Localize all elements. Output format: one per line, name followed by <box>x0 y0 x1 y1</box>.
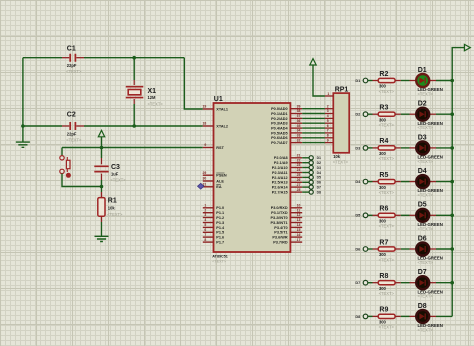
svg-text:30: 30 <box>203 177 207 181</box>
svg-text:16: 16 <box>297 233 301 237</box>
pin P2.7/A15 (28) <box>272 188 302 195</box>
svg-text:<TEXT>: <TEXT> <box>418 226 434 231</box>
wire R9 to LED <box>401 315 410 317</box>
EA pin marker <box>198 183 205 189</box>
svg-text:<TEXT>: <TEXT> <box>418 327 434 332</box>
svg-text:P2.1/A9: P2.1/A9 <box>274 161 288 165</box>
svg-text:R3: R3 <box>379 105 388 112</box>
pin P0.3/AD3 (36) <box>271 119 302 126</box>
svg-text:R6: R6 <box>379 206 388 213</box>
svg-text:D5: D5 <box>355 213 361 218</box>
LED D1 LED-GREEN <box>410 67 443 97</box>
wire P0.6 to RP1 pin 8 <box>302 134 333 138</box>
svg-text:P3.4/T0: P3.4/T0 <box>274 226 287 230</box>
node crystal bottom junction <box>132 124 136 128</box>
ground (left) <box>16 142 30 147</box>
pin XTAL2 (18) <box>203 122 229 129</box>
LED D6 LED-GREEN <box>410 235 443 265</box>
LED D3 LED-GREEN <box>410 134 443 164</box>
node terminal D3 (P2.2) <box>302 165 321 169</box>
svg-text:<TEXT>: <TEXT> <box>379 224 395 229</box>
wire C3 bottom <box>101 180 103 187</box>
svg-text:10: 10 <box>297 204 301 208</box>
svg-text:P1.1: P1.1 <box>216 211 224 215</box>
svg-text:17: 17 <box>297 238 301 242</box>
svg-text:28: 28 <box>297 188 301 192</box>
pin P3.6/WR (16) <box>272 233 302 240</box>
svg-text:<TEXT>: <TEXT> <box>333 160 349 165</box>
svg-text:P3.0/RXD: P3.0/RXD <box>271 206 288 210</box>
wire crystal branch vertical <box>133 58 135 80</box>
node terminal D4 (P2.3) <box>302 170 321 174</box>
svg-text:27: 27 <box>297 183 301 187</box>
resistor pack RP1 <box>333 86 349 164</box>
resistor R2 <box>373 71 401 94</box>
pin P2.1/A9 (22) <box>274 158 302 165</box>
svg-text:P0.5/AD5: P0.5/AD5 <box>271 131 287 135</box>
svg-text:32: 32 <box>297 138 301 142</box>
wire R4 to LED <box>401 147 410 149</box>
wire C1 net top horizontal <box>23 57 62 59</box>
svg-text:<TEXT>: <TEXT> <box>66 137 82 142</box>
power terminal VCC (RP1) <box>310 59 325 96</box>
svg-text:2: 2 <box>204 208 206 212</box>
wire LED D8 to rail <box>436 315 452 317</box>
pin RST (9) <box>203 143 225 150</box>
resistor R6 <box>373 206 401 229</box>
svg-text:<TEXT>: <TEXT> <box>379 89 395 94</box>
svg-text:39: 39 <box>297 104 301 108</box>
svg-text:<TEXT>: <TEXT> <box>418 125 434 130</box>
svg-text:15: 15 <box>297 228 301 232</box>
wire LED D4 to rail <box>436 181 452 183</box>
svg-text:<TEXT>: <TEXT> <box>418 193 434 198</box>
svg-text:D5: D5 <box>418 202 427 209</box>
wire P0.2 to RP1 pin 4 <box>302 114 333 118</box>
wire terminal to R9 <box>368 315 373 317</box>
node rail junction row 1 <box>450 79 454 83</box>
svg-text:D1: D1 <box>355 78 361 83</box>
pin P0.6/AD6 (33) <box>271 134 302 141</box>
svg-text:EA: EA <box>216 185 222 189</box>
svg-text:9: 9 <box>327 138 329 142</box>
svg-text:<TEXT>: <TEXT> <box>379 291 395 296</box>
pin P2.2/A10 (23) <box>272 163 302 170</box>
wire LED D5 to rail <box>436 214 452 216</box>
LED D7 LED-GREEN <box>410 269 443 299</box>
svg-text:29: 29 <box>203 171 207 175</box>
LED D4 LED-GREEN <box>410 168 443 198</box>
svg-text:P1.4: P1.4 <box>216 226 225 230</box>
wire LED D1 to rail <box>436 80 452 82</box>
svg-text:P1.2: P1.2 <box>216 216 224 220</box>
svg-text:C2: C2 <box>67 111 76 118</box>
node terminal D8 (led row) <box>355 314 367 319</box>
pin P1.3 (4) <box>203 218 224 225</box>
pin P0.7/AD7 (32) <box>271 138 302 145</box>
pin P0.1/AD1 (38) <box>271 109 302 116</box>
pin P3.4/T0 (14) <box>274 223 302 230</box>
power terminal (top right) <box>464 44 470 50</box>
svg-text:P0.3/AD3: P0.3/AD3 <box>271 122 287 126</box>
svg-text:D8: D8 <box>317 190 321 194</box>
svg-text:<TEXT>: <TEXT> <box>379 325 395 330</box>
svg-text:D8: D8 <box>418 303 427 310</box>
svg-text:9: 9 <box>204 143 206 147</box>
wire terminal to R3 <box>368 113 373 115</box>
svg-text:P3.1/TXD: P3.1/TXD <box>271 211 288 215</box>
wire LED D7 to rail <box>436 282 452 284</box>
pin P3.2/INT0 (12) <box>271 213 303 220</box>
svg-text:D7: D7 <box>418 269 427 276</box>
svg-text:D7: D7 <box>317 185 321 189</box>
svg-text:22pF: 22pF <box>67 63 77 68</box>
svg-text:<TEXT>: <TEXT> <box>379 257 395 262</box>
svg-text:10k: 10k <box>108 205 116 210</box>
LED D2 LED-GREEN <box>410 101 443 131</box>
wire button top <box>61 148 63 156</box>
resistor R4 <box>373 138 401 161</box>
svg-text:P0.1/AD1: P0.1/AD1 <box>271 112 287 116</box>
wire right power rail <box>452 48 464 317</box>
wire terminal to R7 <box>368 248 373 250</box>
wire RST net horizontal <box>62 147 203 149</box>
svg-text:R8: R8 <box>379 273 388 280</box>
svg-text:C1: C1 <box>67 45 76 52</box>
svg-text:3: 3 <box>327 109 329 113</box>
svg-text:AT89C51: AT89C51 <box>212 255 228 259</box>
svg-text:37: 37 <box>297 114 301 118</box>
svg-text:P1.7: P1.7 <box>216 241 224 245</box>
pin P2.3/A11 (24) <box>272 168 302 175</box>
node rail junction row 2 <box>450 112 454 116</box>
svg-text:R2: R2 <box>379 71 388 78</box>
svg-text:2: 2 <box>327 104 329 108</box>
svg-text:D6: D6 <box>355 246 361 251</box>
svg-text:D4: D4 <box>418 168 427 175</box>
node terminal D5 (P2.4) <box>302 175 321 179</box>
wire RST node down to C3 <box>101 148 103 159</box>
svg-text:P3.5/T1: P3.5/T1 <box>274 231 287 235</box>
pin P2.6/A14 (27) <box>272 183 302 190</box>
svg-text:P2.0/A8: P2.0/A8 <box>274 156 288 160</box>
svg-text:P0.0/AD0: P0.0/AD0 <box>271 107 287 111</box>
svg-text:XTAL1: XTAL1 <box>216 107 228 111</box>
pin XTAL1 (19) <box>203 105 229 112</box>
node terminal D2 (led row) <box>355 112 367 117</box>
resistor R5 <box>373 172 401 195</box>
wire P0.0 to RP1 pin 2 <box>302 104 333 108</box>
pin P0.0/AD0 (39) <box>271 104 302 111</box>
svg-text:22: 22 <box>297 158 301 162</box>
capacitor C3 <box>94 158 126 182</box>
pin P2.0/A8 (21) <box>274 154 302 161</box>
svg-text:P3.3/INT1: P3.3/INT1 <box>271 221 288 225</box>
svg-text:22pF: 22pF <box>67 131 77 136</box>
svg-text:<TEXT>: <TEXT> <box>212 259 226 263</box>
svg-text:26: 26 <box>297 178 301 182</box>
svg-text:21: 21 <box>297 154 301 158</box>
resistor R9 <box>373 307 401 330</box>
svg-text:P1.0: P1.0 <box>216 206 224 210</box>
svg-text:P1.5: P1.5 <box>216 231 224 235</box>
pin P0.2/AD2 (37) <box>271 114 302 121</box>
svg-text:25: 25 <box>297 173 301 177</box>
svg-text:4: 4 <box>327 114 329 118</box>
svg-text:P0.6/AD6: P0.6/AD6 <box>271 136 287 140</box>
node C2-net left junction <box>21 124 25 128</box>
svg-text:8: 8 <box>204 238 206 242</box>
svg-text:<TEXT>: <TEXT> <box>379 156 395 161</box>
wire R5 to LED <box>401 181 410 183</box>
svg-text:12M: 12M <box>148 95 157 100</box>
LED D5 LED-GREEN <box>410 202 443 232</box>
resistor R1 <box>98 187 123 237</box>
svg-text:1: 1 <box>327 92 329 96</box>
svg-text:P2.2/A10: P2.2/A10 <box>272 166 288 170</box>
svg-text:13: 13 <box>297 218 301 222</box>
svg-text:<TEXT>: <TEXT> <box>107 212 123 217</box>
svg-text:34: 34 <box>297 129 301 133</box>
svg-text:PSEN: PSEN <box>216 174 227 178</box>
svg-text:<TEXT>: <TEXT> <box>379 190 395 195</box>
node terminal D7 (led row) <box>355 280 367 285</box>
svg-text:35: 35 <box>297 124 301 128</box>
pin P2.5/A13 (26) <box>272 178 302 185</box>
pin P1.6 (7) <box>203 233 224 240</box>
wire P0.7 to RP1 pin 9 <box>302 138 333 142</box>
svg-text:P3.7/RD: P3.7/RD <box>273 241 288 245</box>
pin P1.4 (5) <box>203 223 225 230</box>
node rail junction row 7 <box>450 281 454 285</box>
wire terminal to R4 <box>368 147 373 149</box>
svg-text:R7: R7 <box>379 239 388 246</box>
svg-text:D4: D4 <box>317 171 321 175</box>
node terminal D1 (led row) <box>355 78 367 83</box>
pin EA (31) <box>203 183 222 190</box>
svg-text:6: 6 <box>327 124 329 128</box>
svg-text:23: 23 <box>297 163 301 167</box>
node rail junction row 4 <box>450 180 454 184</box>
svg-text:D2: D2 <box>355 112 361 117</box>
pin P1.7 (8) <box>203 238 224 245</box>
svg-text:18: 18 <box>203 122 207 126</box>
LED D8 LED-GREEN <box>410 303 443 333</box>
push button <box>60 156 71 178</box>
node terminal D6 (P2.5) <box>302 180 321 184</box>
pin ALE (30) <box>203 177 225 184</box>
svg-text:P2.3/A11: P2.3/A11 <box>272 171 288 175</box>
node rail junction row 3 <box>450 146 454 150</box>
wire LED D3 to rail <box>436 147 452 149</box>
svg-text:D7: D7 <box>355 280 360 285</box>
svg-text:6: 6 <box>204 228 206 232</box>
svg-text:38: 38 <box>297 109 301 113</box>
crystal X1 <box>126 80 164 107</box>
svg-text:12: 12 <box>297 213 301 217</box>
svg-text:U1: U1 <box>214 96 223 103</box>
svg-text:D2: D2 <box>317 161 321 165</box>
svg-text:D4: D4 <box>355 179 361 184</box>
node rail junction row 5 <box>450 214 454 218</box>
svg-text:R1: R1 <box>108 198 117 205</box>
wire LED D2 to rail <box>436 113 452 115</box>
svg-text:36: 36 <box>297 119 301 123</box>
pin P3.5/T1 (15) <box>274 228 302 235</box>
node RST/VCC junction <box>100 146 104 150</box>
svg-text:1: 1 <box>204 204 206 208</box>
pin P3.7/RD (17) <box>273 238 302 245</box>
wire button bottom to C3 node <box>62 174 102 187</box>
wire left vertical to ground <box>22 58 24 142</box>
svg-text:D3: D3 <box>355 145 361 150</box>
wire P0.3 to RP1 pin 5 <box>302 119 333 123</box>
svg-text:<TEXT>: <TEXT> <box>418 260 434 265</box>
svg-text:D1: D1 <box>317 156 321 160</box>
resistor R8 <box>373 273 401 296</box>
svg-text:14: 14 <box>297 223 301 227</box>
wire terminal to R5 <box>368 181 373 183</box>
power terminal VCC (reset) <box>98 130 104 147</box>
wire C2 net horizontal <box>23 125 62 127</box>
pin P3.0/RXD (10) <box>271 204 302 211</box>
node rail junction row 6 <box>450 247 454 251</box>
wire P0.1 to RP1 pin 3 <box>302 109 333 113</box>
pin PSEN (29) <box>203 171 227 178</box>
svg-text:<TEXT>: <TEXT> <box>418 92 434 97</box>
resistor R7 <box>373 239 401 262</box>
svg-text:P1.3: P1.3 <box>216 221 224 225</box>
node terminal D5 (led row) <box>355 213 367 218</box>
svg-text:3: 3 <box>204 213 206 217</box>
wire R3 to LED <box>401 113 410 115</box>
svg-text:<TEXT>: <TEXT> <box>418 159 434 164</box>
svg-text:P3.6/WR: P3.6/WR <box>272 236 287 240</box>
pin P0.5/AD5 (34) <box>271 129 302 136</box>
pin P1.1 (2) <box>203 208 224 215</box>
pin P1.0 (1) <box>203 204 224 211</box>
svg-text:19: 19 <box>203 105 207 109</box>
svg-text:<TEXT>: <TEXT> <box>379 123 395 128</box>
node terminal D3 (led row) <box>355 145 367 150</box>
pin P0.4/AD4 (35) <box>271 124 302 131</box>
wire R8 to LED <box>401 282 410 284</box>
wire terminal to R2 <box>368 80 373 82</box>
svg-text:5: 5 <box>204 223 206 227</box>
resistor R3 <box>373 105 401 128</box>
svg-text:P1.6: P1.6 <box>216 236 224 240</box>
svg-text:<TEXT>: <TEXT> <box>148 102 164 107</box>
svg-text:C3: C3 <box>111 164 120 171</box>
op-amp U1 AT89C51 microcontroller body <box>212 96 290 263</box>
wire terminal to R8 <box>368 282 373 284</box>
capacitor C1 <box>62 45 84 74</box>
svg-text:D1: D1 <box>418 67 427 74</box>
svg-text:XTAL2: XTAL2 <box>216 124 228 128</box>
svg-text:D3: D3 <box>317 166 321 170</box>
node crystal top junction <box>132 56 136 60</box>
svg-text:<TEXT>: <TEXT> <box>66 69 82 74</box>
svg-text:<TEXT>: <TEXT> <box>418 294 434 299</box>
svg-text:D5: D5 <box>317 176 321 180</box>
svg-text:8: 8 <box>327 134 329 138</box>
wire R7 to LED <box>401 248 410 250</box>
svg-text:P3.2/INT0: P3.2/INT0 <box>271 216 288 220</box>
svg-text:D6: D6 <box>418 235 427 242</box>
pin P3.1/TXD (11) <box>271 208 302 215</box>
wire R2 to LED <box>401 80 410 82</box>
svg-text:P2.6/A14: P2.6/A14 <box>272 186 289 190</box>
node terminal D8 (P2.7) <box>302 190 321 194</box>
svg-text:<TEXT>: <TEXT> <box>110 177 126 182</box>
node terminal D2 (P2.1) <box>302 161 321 165</box>
pin P1.5 (6) <box>203 228 224 235</box>
svg-text:11: 11 <box>297 208 301 212</box>
svg-text:5: 5 <box>327 119 329 123</box>
wire LED D6 to rail <box>436 248 452 250</box>
svg-text:R4: R4 <box>379 138 388 145</box>
svg-text:ALE: ALE <box>216 179 224 183</box>
svg-text:RP1: RP1 <box>335 86 349 93</box>
wire terminal to R6 <box>368 214 373 216</box>
capacitor C2 <box>62 111 84 142</box>
svg-text:P2.7/A15: P2.7/A15 <box>272 191 288 195</box>
pin P3.3/INT1 (13) <box>271 218 303 225</box>
svg-text:D6: D6 <box>317 181 321 185</box>
node terminal D1 (P2.0) <box>302 156 321 160</box>
svg-text:4: 4 <box>204 218 206 222</box>
wire P0.4 to RP1 pin 6 <box>302 124 333 128</box>
wire P0.5 to RP1 pin 7 <box>302 129 333 133</box>
svg-text:1uF: 1uF <box>111 171 119 176</box>
pin P1.2 (3) <box>203 213 224 220</box>
svg-text:24: 24 <box>297 168 301 172</box>
wire R6 to LED <box>401 214 410 216</box>
svg-text:RST: RST <box>216 146 224 150</box>
svg-text:P0.2/AD2: P0.2/AD2 <box>271 117 287 121</box>
node terminal D6 (led row) <box>355 246 367 251</box>
svg-text:7: 7 <box>204 233 206 237</box>
svg-text:P2.5/A13: P2.5/A13 <box>272 181 288 185</box>
svg-text:D2: D2 <box>418 101 427 108</box>
svg-text:33: 33 <box>297 134 301 138</box>
pin P2.4/A12 (25) <box>272 173 302 180</box>
svg-text:D8: D8 <box>355 314 361 319</box>
svg-text:R9: R9 <box>379 307 388 314</box>
svg-text:7: 7 <box>327 129 329 133</box>
pin RP1.1 <box>325 92 333 96</box>
node C3/R1/button junction <box>100 185 104 189</box>
node terminal D4 (led row) <box>355 179 367 184</box>
svg-text:10k: 10k <box>333 154 341 159</box>
svg-text:P0.4/AD4: P0.4/AD4 <box>271 127 288 131</box>
ground (below R1) <box>95 236 109 241</box>
node terminal D7 (P2.6) <box>302 185 321 189</box>
wire XTAL1 connection <box>184 58 203 109</box>
svg-text:R5: R5 <box>379 172 388 179</box>
svg-text:D3: D3 <box>418 134 427 141</box>
svg-text:P0.7/AD7: P0.7/AD7 <box>271 141 287 145</box>
svg-text:P2.4/A12: P2.4/A12 <box>272 176 288 180</box>
